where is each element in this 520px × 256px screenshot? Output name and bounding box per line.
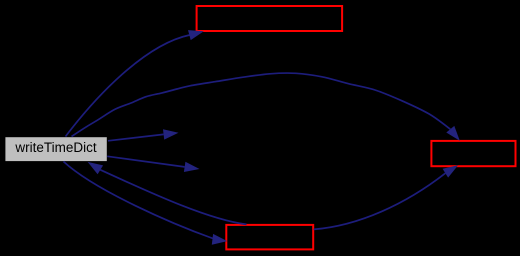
svg-text:writeTimeDict: writeTimeDict bbox=[14, 140, 96, 155]
